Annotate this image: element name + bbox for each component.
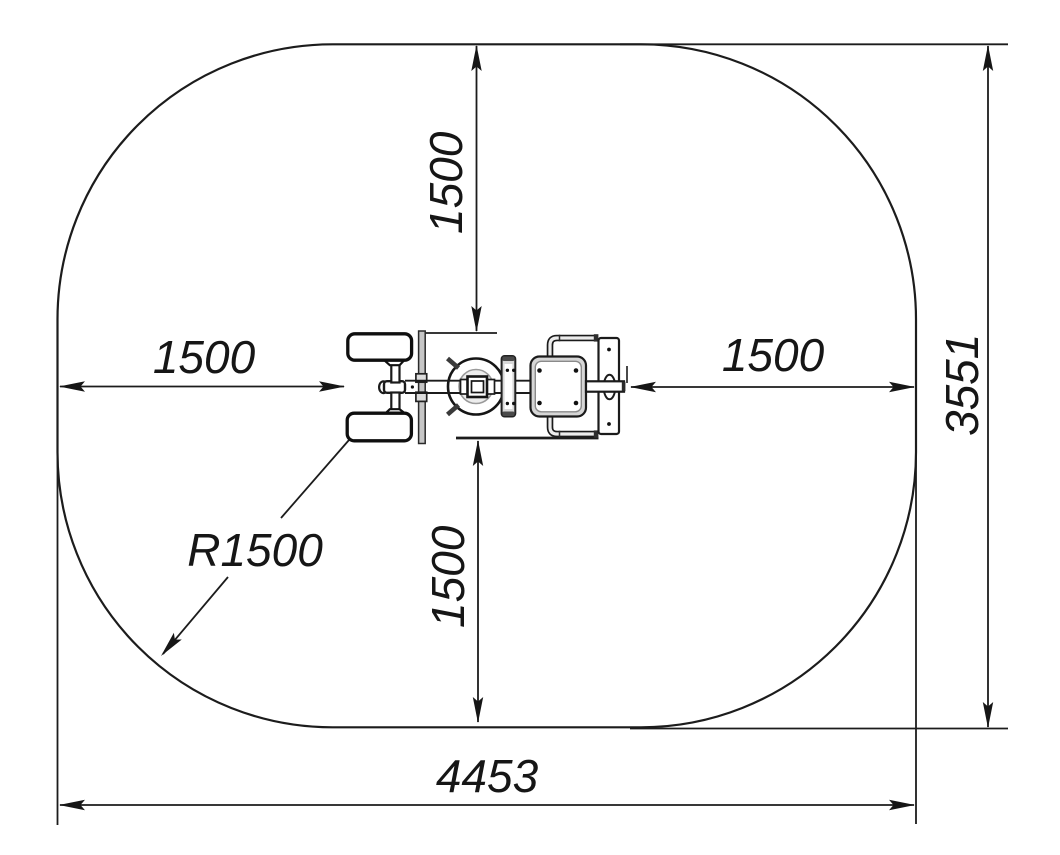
- arrow up, dim 1500 top: [471, 45, 481, 71]
- arrow right, dim 1500 left: [319, 381, 345, 391]
- pillar center square outer: [468, 377, 488, 398]
- tube end caps at plate: [594, 334, 599, 341]
- dimension line 1500 bottom vertical: [477, 441, 479, 722]
- extension line machine bottom: [456, 437, 599, 440]
- arrow down, dim 1500 top: [471, 306, 481, 332]
- arrow left, dim 4453: [59, 800, 85, 810]
- extension line bottom left (4453): [57, 440, 59, 825]
- flywheel thin bar: [419, 331, 426, 444]
- arrow right, dim 4453: [889, 800, 915, 810]
- extension line machine top: [419, 332, 497, 334]
- flywheel collar top: [416, 374, 427, 382]
- handle stub upper-left: [448, 359, 459, 369]
- arrow down, dim 1500 bottom: [473, 697, 483, 723]
- arrow down, dim 3551: [983, 702, 993, 728]
- handle stub lower-left: [448, 405, 459, 415]
- safety zone rounded-rectangle boundary: [58, 44, 917, 727]
- dimension line 1500 left: [60, 386, 344, 388]
- tube joint ticks: [559, 335, 561, 342]
- arrow up, dim 1500 bottom: [473, 440, 483, 466]
- extension line bottom right vertical (4453): [915, 440, 917, 824]
- arrow left, dim 1500 right: [630, 382, 656, 392]
- seat square: [531, 357, 587, 417]
- backrest plate right: [599, 338, 620, 434]
- svg-text:R1500: R1500: [187, 524, 323, 576]
- arrow right, dim 1500 right: [889, 382, 915, 392]
- pillar inner ring: [459, 370, 493, 404]
- arrow left, dim 1500 left: [59, 381, 85, 391]
- arrowheads: [59, 45, 993, 810]
- axle end tick: [626, 366, 628, 383]
- axle end cap: [622, 382, 626, 391]
- arrow up, dim 3551: [983, 45, 993, 71]
- axle shaft right rectangle: [586, 381, 624, 391]
- pillar center square inner: [472, 381, 484, 393]
- svg-text:1500: 1500: [722, 329, 825, 381]
- footrest bottom: [347, 413, 411, 441]
- svg-text:1500: 1500: [422, 525, 474, 628]
- axle joint dot: [411, 385, 414, 388]
- dimension line 3551 vertical: [987, 46, 989, 727]
- extension line bottom right (3551): [630, 728, 1008, 730]
- pedal crank hub: [379, 381, 388, 393]
- dimension line 1500 right: [631, 386, 914, 388]
- svg-text:4453: 4453: [436, 750, 539, 802]
- dimension line 1500 top vertical: [476, 46, 478, 331]
- bracket plate: [502, 356, 516, 417]
- footrest top: [348, 334, 412, 360]
- dimension line 4453 horizontal: [60, 804, 914, 806]
- pedal mount top: [384, 360, 405, 365]
- arrow leader R1500: [157, 633, 182, 660]
- svg-text:1500: 1500: [153, 331, 256, 383]
- leader line R1500 lower segment: [163, 577, 228, 654]
- pedal stem top: [391, 364, 399, 383]
- svg-text:3551: 3551: [936, 334, 988, 436]
- extension line top right (3551): [620, 43, 1008, 45]
- center pillar circle: [448, 359, 504, 415]
- pedal stem bottom: [391, 393, 399, 412]
- shaft cap left of square: [461, 380, 469, 395]
- svg-text:1500: 1500: [420, 131, 472, 234]
- pedal mount bottom: [384, 409, 407, 415]
- flywheel collar bottom: [416, 392, 427, 401]
- leader line R1500 upper segment: [281, 440, 349, 518]
- shaft cap right of square: [487, 380, 495, 395]
- axle shaft lines: [405, 381, 531, 393]
- handle tube U-shape: [550, 334, 598, 438]
